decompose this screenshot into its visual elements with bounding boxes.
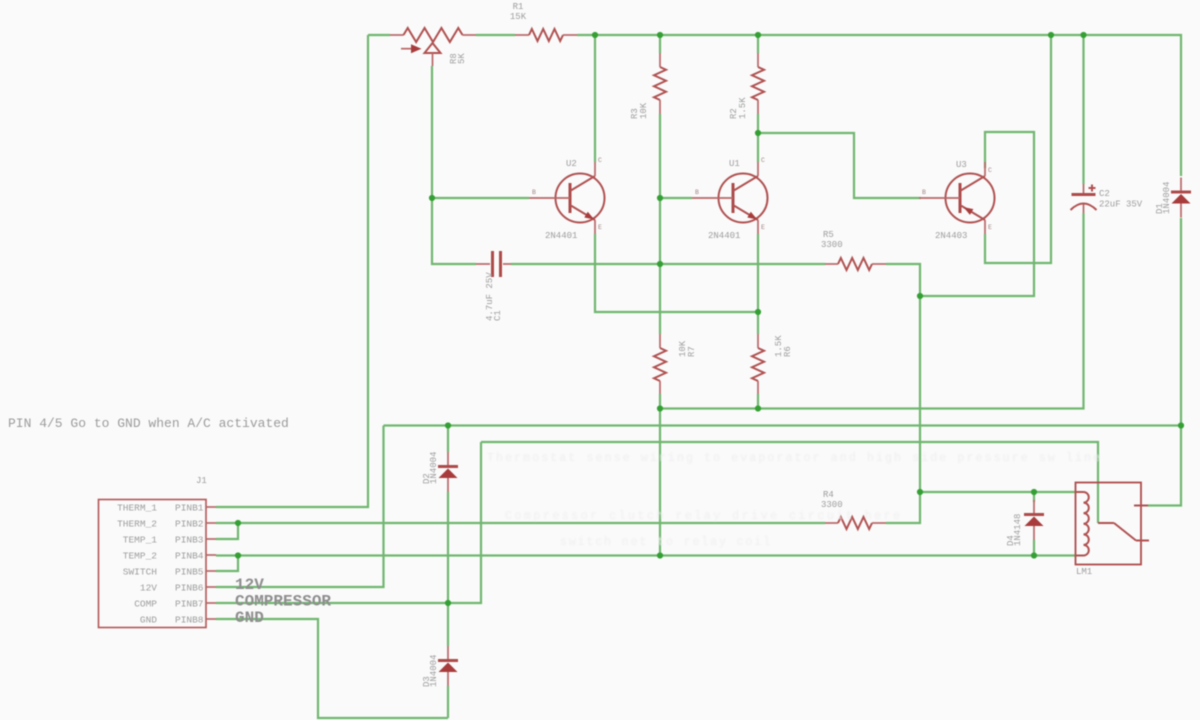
wire U1 collector node to U3 base (758, 133, 921, 198)
wire U1 emitter down to R6 (757, 234, 759, 334)
svg-text:R6: R6 (783, 346, 793, 357)
wire tap down to C1 rail (432, 198, 476, 264)
capacitor C1 4.7uF 25V (476, 251, 511, 321)
svg-text:2N4403: 2N4403 (935, 231, 967, 241)
wire U3 emitter to top rail riser (985, 35, 1051, 263)
node 595,35 (592, 32, 598, 38)
wire y408 rail to C2 bottom (660, 213, 1084, 409)
diode D2 1N4004 (422, 452, 458, 492)
wire R3 bottom down to R7 (659, 114, 661, 334)
wire therm net y523 to R4 (238, 522, 825, 524)
capacitor C2 22uF 35V (1071, 184, 1143, 213)
wire THERM_1 riser (left tall vertical) (216, 35, 368, 507)
wire y442 to relay contact common (481, 442, 1098, 523)
wire R5 right corner down to R4 (886, 264, 920, 523)
wire D4 top lead (1033, 492, 1035, 502)
wire 12V pin riser (216, 426, 384, 588)
node 1083.5,35 (1080, 32, 1086, 38)
svg-text:PINB7: PINB7 (175, 599, 204, 610)
svg-text:1N4004: 1N4004 (429, 452, 439, 484)
node 920,296 (917, 293, 923, 299)
svg-text:Compressor clutch relay drive: Compressor clutch relay drive circuit he… (505, 510, 900, 523)
svg-text:COMPRESSOR: COMPRESSOR (235, 593, 331, 611)
svg-text:THERM_2: THERM_2 (117, 519, 157, 530)
wire pot to R1 (476, 34, 515, 36)
wire top rail right segment to D1 (577, 35, 1181, 176)
node 758,133 (755, 130, 761, 136)
svg-text:R4: R4 (823, 490, 834, 500)
resistor R5 3300 (821, 230, 886, 270)
node 920,492 (917, 489, 923, 495)
svg-text:U2: U2 (566, 159, 577, 169)
svg-text:PINB6: PINB6 (175, 583, 204, 594)
wire R7 bottom (659, 394, 661, 409)
svg-text:U1: U1 (729, 159, 740, 169)
wire U3 collector loop (920, 132, 1034, 296)
svg-text:2N4401: 2N4401 (545, 231, 577, 241)
wire GND pin to bottom rail (216, 619, 448, 718)
svg-text:E: E (761, 224, 765, 231)
diode D1 1N4004 (1155, 178, 1191, 218)
relay LM1 (1076, 483, 1150, 578)
node 432,198 (429, 195, 435, 201)
wire x660 lower segment to switch net (659, 409, 661, 556)
wire THERM_2 stub (216, 522, 238, 524)
svg-text:TEMP_1: TEMP_1 (123, 535, 158, 546)
wire R2 bottom to U1 collector node (757, 114, 759, 162)
svg-text:PINB3: PINB3 (175, 535, 204, 546)
wire D3 bottom (447, 686, 449, 718)
svg-text:THERM_1: THERM_1 (117, 503, 157, 514)
svg-text:PINB8: PINB8 (175, 615, 204, 626)
wire relay coil top from node (920, 491, 1076, 493)
svg-text:PINB5: PINB5 (175, 567, 204, 578)
svg-text:15K: 15K (510, 12, 527, 22)
node 660,555.5 (657, 552, 663, 558)
wire R2 top (757, 35, 759, 53)
transistor U3 2N4403 (919, 162, 995, 234)
pin THERM_1 PINB1 (206, 506, 216, 508)
node 1034,492 (1031, 489, 1037, 495)
svg-text:U3: U3 (956, 160, 967, 170)
resistor R2 1.5K (729, 53, 764, 119)
svg-text:R5: R5 (823, 230, 834, 240)
wire COMP pin riser (216, 442, 481, 603)
node 448,603 (445, 600, 451, 606)
svg-text:C: C (761, 157, 765, 164)
svg-text:C: C (988, 167, 992, 174)
wire U2 collector up to rail (594, 35, 596, 162)
svg-text:C2: C2 (1099, 189, 1110, 199)
svg-text:10K: 10K (639, 102, 649, 119)
node 660,198 (657, 195, 663, 201)
transistor U2 2N4401 (529, 157, 605, 234)
svg-text:R1: R1 (513, 2, 524, 12)
wire D2 top (447, 426, 449, 453)
svg-text:1N4004: 1N4004 (1162, 182, 1172, 214)
node 238,523 (235, 520, 241, 526)
svg-text:GND: GND (140, 615, 157, 626)
svg-text:3300: 3300 (821, 240, 843, 250)
wire U2 emitter down and to U1 emitter (595, 234, 758, 312)
node 1181,425.5 (1178, 422, 1184, 428)
node 1051,35 (1048, 32, 1054, 38)
svg-text:COMP: COMP (134, 599, 157, 610)
svg-text:12V: 12V (140, 583, 157, 594)
wire SWITCH stub join (216, 556, 238, 572)
svg-text:1N4004: 1N4004 (429, 655, 439, 687)
svg-text:SWITCH: SWITCH (123, 567, 157, 578)
svg-text:2N4401: 2N4401 (708, 231, 740, 241)
resistor R6 1.5K (752, 334, 793, 394)
svg-text:12V: 12V (235, 576, 264, 594)
svg-text:Thermostat sense wiring to eva: Thermostat sense wiring to evaporator an… (487, 452, 1100, 465)
svg-text:E: E (598, 224, 602, 231)
svg-text:switch net to relay coil: switch net to relay coil (560, 536, 770, 549)
pin GND PINB8 (206, 618, 216, 620)
node 1034,555.5 (1031, 552, 1037, 558)
wire node to U1 base (660, 197, 692, 199)
svg-text:B: B (922, 189, 926, 196)
node 448,425.5 (445, 422, 451, 428)
resistor R1 15K (510, 2, 577, 41)
resistor R3 10K (630, 53, 666, 119)
wire 12V rail y425 (384, 424, 1182, 426)
wire switch net y555 to relay coil bottom (238, 554, 1076, 556)
diode D4 1N4148 (1006, 500, 1044, 546)
resistor R4 3300 (821, 490, 886, 529)
wire D1 bottom to relay contact (1148, 218, 1181, 506)
wire R3 top (659, 35, 661, 53)
wire D3 top (447, 603, 449, 646)
wire D4 bottom lead (1033, 540, 1035, 556)
svg-text:C: C (598, 157, 602, 164)
svg-text:PIN 4/5 Go to GND when A/C act: PIN 4/5 Go to GND when A/C activated (8, 416, 289, 431)
svg-text:PINB4: PINB4 (175, 551, 204, 562)
svg-text:LM1: LM1 (1076, 567, 1092, 577)
svg-text:5K: 5K (457, 53, 467, 64)
svg-text:PINB1: PINB1 (175, 503, 204, 514)
node 660,408.5 (657, 405, 663, 411)
svg-text:22uF 35V: 22uF 35V (1099, 200, 1143, 210)
wire C1 to R5 (511, 263, 825, 265)
pin 12V PINB6 (206, 586, 216, 588)
resistor R7 10K (654, 334, 697, 394)
pin THERM_2 PINB2 (206, 522, 216, 524)
node 660,35 (657, 32, 663, 38)
connector J1 (99, 476, 217, 628)
node 758,408.5 (755, 405, 761, 411)
svg-text:B: B (695, 189, 699, 196)
svg-text:1.5K: 1.5K (738, 97, 748, 119)
wire TEMP_2 stub (216, 554, 238, 556)
wire pot tap down (431, 66, 433, 198)
svg-text:3300: 3300 (821, 500, 843, 510)
wire tap to U2 base (432, 197, 529, 199)
wire top rail left segment (368, 34, 390, 36)
svg-text:C1: C1 (493, 310, 503, 321)
pin COMP PINB7 (206, 602, 216, 604)
potentiometer R8 5K (390, 28, 476, 66)
pin TEMP_2 PINB4 (206, 554, 216, 556)
node 758,312 (755, 309, 761, 315)
wire C2 top (1082, 35, 1084, 184)
wire D2 bottom (447, 492, 449, 603)
pin SWITCH PINB5 (206, 570, 216, 572)
svg-text:R7: R7 (687, 346, 697, 357)
svg-text:TEMP_2: TEMP_2 (123, 551, 158, 562)
svg-text:E: E (988, 224, 992, 231)
svg-text:J1: J1 (196, 476, 207, 486)
transistor U1 2N4401 (692, 157, 768, 234)
svg-text:1N4148: 1N4148 (1013, 514, 1023, 546)
diode D3 1N4004 (422, 646, 458, 687)
node 758,35 (755, 32, 761, 38)
wire R6 bottom (757, 394, 759, 409)
svg-text:GND: GND (235, 609, 264, 627)
pin TEMP_1 PINB3 (206, 538, 216, 540)
wire TEMP_1 stub join (216, 523, 238, 539)
node 660,264 (657, 261, 663, 267)
node 238,555.5 (235, 552, 241, 558)
svg-text:B: B (532, 189, 536, 196)
svg-text:PINB2: PINB2 (175, 519, 204, 530)
